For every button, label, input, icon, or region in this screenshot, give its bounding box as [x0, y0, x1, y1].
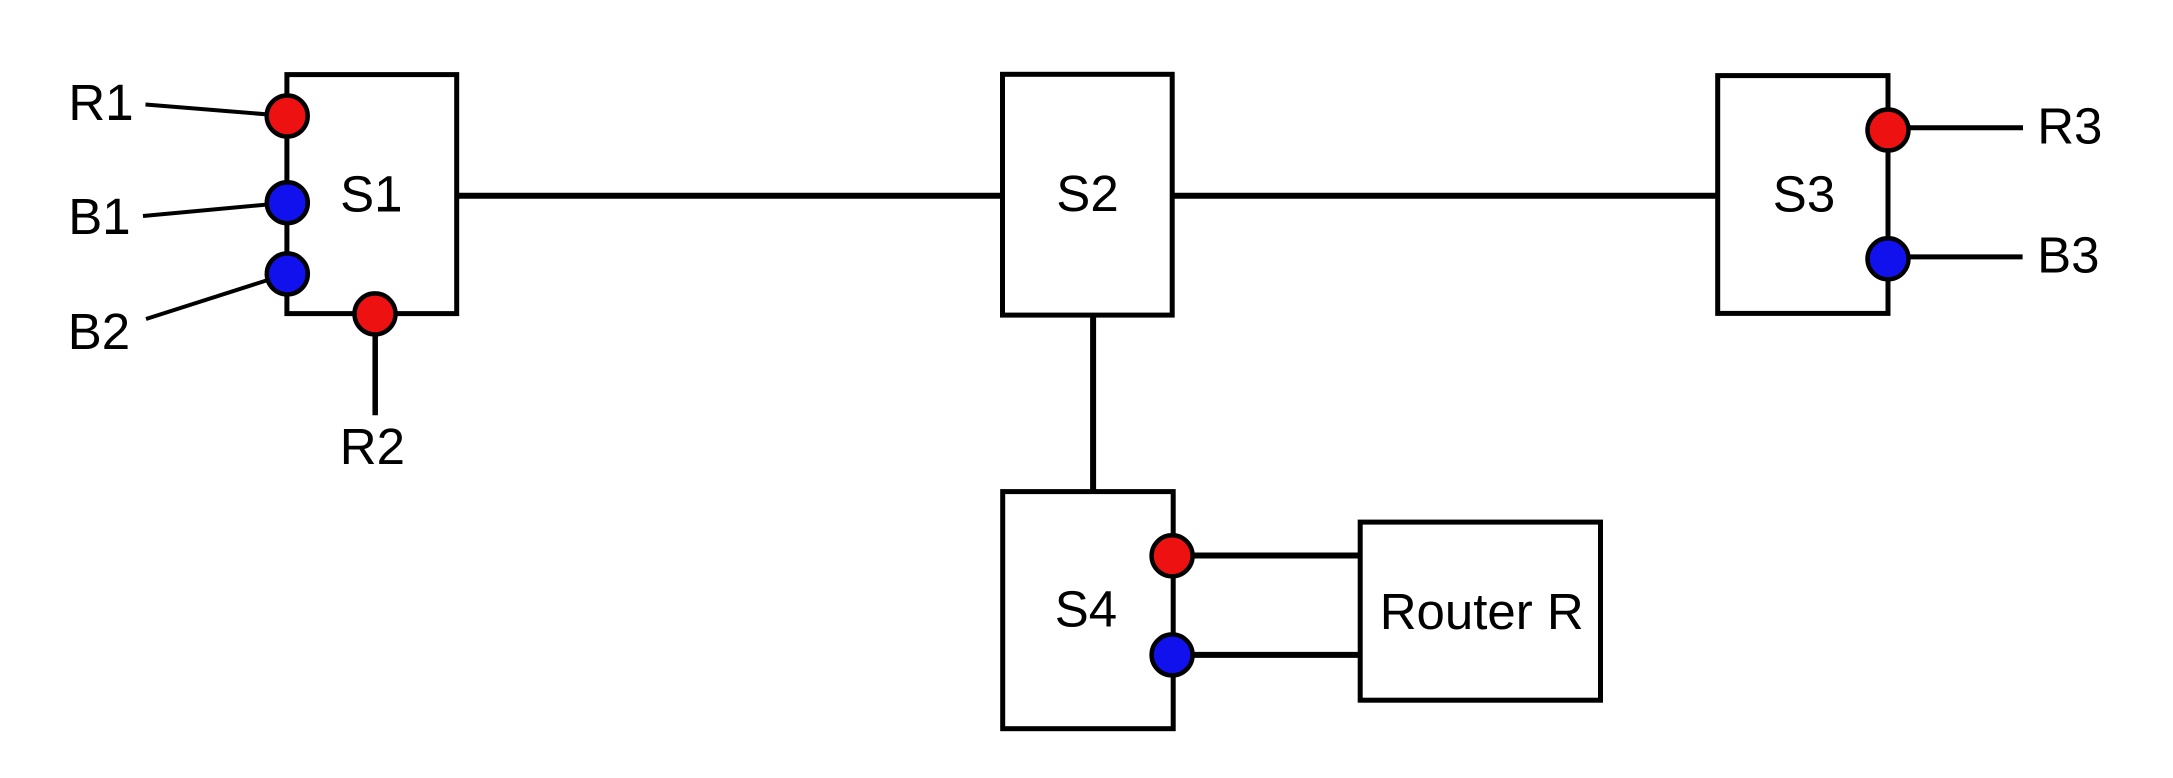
leader B2	[146, 274, 287, 319]
wire S4-RouterR bottom	[1172, 652, 1360, 658]
svg-text:B3: B3	[2037, 227, 2099, 284]
port dot S4 red	[1152, 535, 1193, 576]
port dot R1 (red)	[267, 96, 308, 137]
svg-text:R3: R3	[2037, 98, 2102, 155]
wire stub B3	[1888, 254, 2023, 259]
port dot R3 (red)	[1868, 110, 1909, 151]
wire S2-S4	[1090, 315, 1096, 492]
svg-text:S2: S2	[1056, 165, 1118, 222]
svg-text:Router R: Router R	[1380, 583, 1584, 640]
switch S4 box	[1003, 492, 1173, 729]
switch S1 box	[287, 75, 457, 314]
svg-text:S3: S3	[1773, 165, 1835, 222]
svg-text:R1: R1	[68, 74, 133, 131]
svg-text:R2: R2	[340, 418, 405, 475]
port dot R2 (red)	[355, 293, 396, 334]
foot of 1 in S1	[378, 207, 400, 211]
foot of 1 in B1	[106, 230, 128, 234]
leader R1	[146, 105, 288, 117]
svg-text:B2: B2	[68, 303, 130, 360]
svg-text:B1: B1	[68, 188, 130, 245]
port dot B1 (blue)	[267, 182, 308, 223]
wire S4-RouterR top	[1172, 553, 1360, 559]
wire stub R3	[1888, 125, 2023, 130]
switch S2 box	[1003, 74, 1173, 315]
port dot B2 (blue)	[267, 253, 308, 294]
leader B1	[143, 203, 287, 216]
router R box	[1360, 522, 1600, 700]
port dot S4 blue	[1152, 634, 1193, 675]
svg-text:S1: S1	[340, 165, 402, 222]
wire stub R2	[372, 314, 378, 415]
svg-text:S4: S4	[1055, 581, 1117, 638]
wire S2-S3	[1172, 193, 1718, 199]
port dot B3 (blue)	[1868, 238, 1909, 279]
foot of 1 in R1	[109, 116, 131, 120]
wire S1-S2	[457, 193, 1003, 199]
switch S3 box	[1718, 76, 1888, 314]
